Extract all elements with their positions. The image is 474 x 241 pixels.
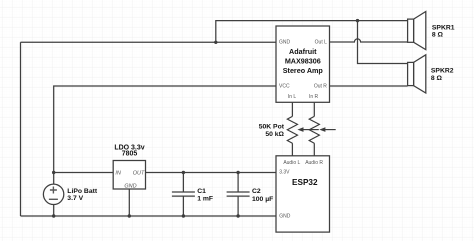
wire amp In L down to pot [291, 102, 293, 116]
wire pot L to ESP32 Audio L [291, 143, 293, 156]
svg-text:OUT: OUT [133, 170, 145, 176]
svg-text:In R: In R [309, 94, 319, 100]
wire bottom ground rail [21, 215, 277, 217]
wire VCC from battery to amp [54, 86, 276, 173]
svg-text:SPKR1: SPKR1 [432, 24, 455, 31]
svg-text:100 µF: 100 µF [252, 196, 273, 203]
potentiometer right 50K [309, 116, 336, 143]
wire C2 top lead [237, 173, 239, 193]
wire amp In R down to pot [313, 102, 315, 116]
junction node battery bottom [52, 214, 55, 217]
microcontroller ESP32 [276, 156, 330, 232]
wire LDO OUT to ESP32 3.3V rail [146, 172, 277, 174]
wire C2 bottom lead [237, 196, 239, 216]
wire C1 bottom lead [182, 196, 184, 216]
svg-text:C2: C2 [252, 188, 261, 195]
wire amp Out R to SPKR2 bottom [330, 85, 408, 87]
capacitor C1 1 mF [172, 188, 213, 203]
svg-text:3.3V: 3.3V [279, 170, 290, 176]
svg-text:Out R: Out R [314, 83, 327, 89]
wire GND rail to amp GND pin [21, 41, 277, 43]
svg-text:50K Pot: 50K Pot [259, 124, 285, 131]
wire battery top stub [53, 173, 55, 185]
wire top branch to SPKR1 [216, 21, 408, 43]
svg-text:Audio R: Audio R [305, 160, 323, 166]
junction node LDO GND [128, 214, 131, 217]
junction node C2 top [236, 171, 239, 174]
wire amp Out L to SPKR1 with hop [330, 39, 408, 42]
svg-text:Audio L: Audio L [283, 160, 300, 166]
wire LDO GND down [128, 189, 130, 216]
svg-text:8 Ω: 8 Ω [431, 75, 443, 82]
wire C1 top lead [182, 173, 184, 193]
capacitor C2 100 µF [227, 188, 274, 203]
svg-text:LiPo Batt: LiPo Batt [67, 188, 98, 195]
junction node C1 top [182, 171, 185, 174]
svg-text:VCC: VCC [279, 83, 290, 89]
regulator LDO 3.3v 7805 [113, 145, 145, 190]
potentiometer left 50K [287, 116, 319, 143]
svg-text:8 Ω: 8 Ω [432, 32, 444, 39]
svg-text:C1: C1 [197, 188, 206, 195]
label 50K Pot 50 kΩ [259, 124, 285, 138]
svg-text:ESP32: ESP32 [292, 178, 318, 187]
wire pot R to ESP32 Audio R [313, 143, 315, 156]
svg-text:GND: GND [279, 214, 291, 220]
svg-text:1 mF: 1 mF [197, 196, 213, 203]
svg-text:GND: GND [279, 39, 291, 45]
svg-text:In L: In L [288, 94, 297, 100]
svg-text:MAX98306: MAX98306 [285, 57, 321, 66]
junction node GND-amp branch [214, 41, 217, 44]
svg-text:3.7 V: 3.7 V [67, 195, 83, 202]
svg-text:IN: IN [115, 170, 121, 176]
speaker SPKR2 8Ω [408, 55, 454, 93]
junction node C2 bottom [236, 214, 239, 217]
svg-text:50 kΩ: 50 kΩ [265, 131, 284, 138]
svg-text:GND: GND [124, 183, 136, 189]
battery LiPo Batt 3.7 V [43, 184, 97, 204]
speaker SPKR1 8Ω [408, 12, 455, 50]
svg-text:Adafruit: Adafruit [289, 47, 317, 56]
wire left rail vertical [20, 42, 22, 216]
junction node SPKR branch [356, 19, 359, 22]
svg-text:SPKR2: SPKR2 [431, 68, 454, 75]
op-amp board U1 Adafruit MAX98306 Stereo Amp [276, 26, 330, 102]
svg-text:Out L: Out L [315, 39, 327, 45]
junction node C1 bottom [182, 214, 185, 217]
svg-text:Stereo Amp: Stereo Amp [283, 66, 324, 75]
wire battery to LDO IN [54, 172, 113, 174]
junction node battery top [52, 171, 55, 174]
wire branch to SPKR2 top [358, 21, 408, 64]
wire battery bottom stub [53, 205, 55, 216]
svg-text:7805: 7805 [122, 151, 138, 158]
